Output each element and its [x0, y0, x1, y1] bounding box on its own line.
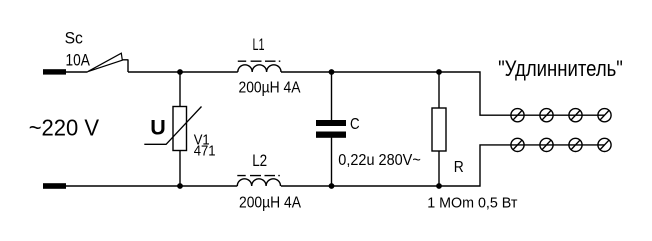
svg-text:0,22u 280V~: 0,22u 280V~	[338, 152, 421, 169]
svg-text:~220 V: ~220 V	[29, 115, 100, 141]
svg-text:U: U	[150, 115, 166, 139]
svg-text:L1: L1	[253, 36, 265, 54]
svg-text:471: 471	[194, 142, 216, 159]
svg-text:L2: L2	[252, 152, 267, 170]
svg-text:200µH 4A: 200µH 4A	[239, 79, 301, 96]
svg-text:"Удлиннитель": "Удлиннитель"	[498, 56, 623, 81]
svg-text:200µH 4A: 200µH 4A	[239, 194, 301, 211]
svg-text:Sc: Sc	[65, 29, 84, 48]
svg-text:10A: 10A	[66, 51, 91, 70]
svg-text:1 MOm 0,5 Вт: 1 MOm 0,5 Вт	[427, 195, 517, 212]
svg-text:C: C	[350, 116, 360, 133]
svg-text:R: R	[454, 159, 464, 176]
